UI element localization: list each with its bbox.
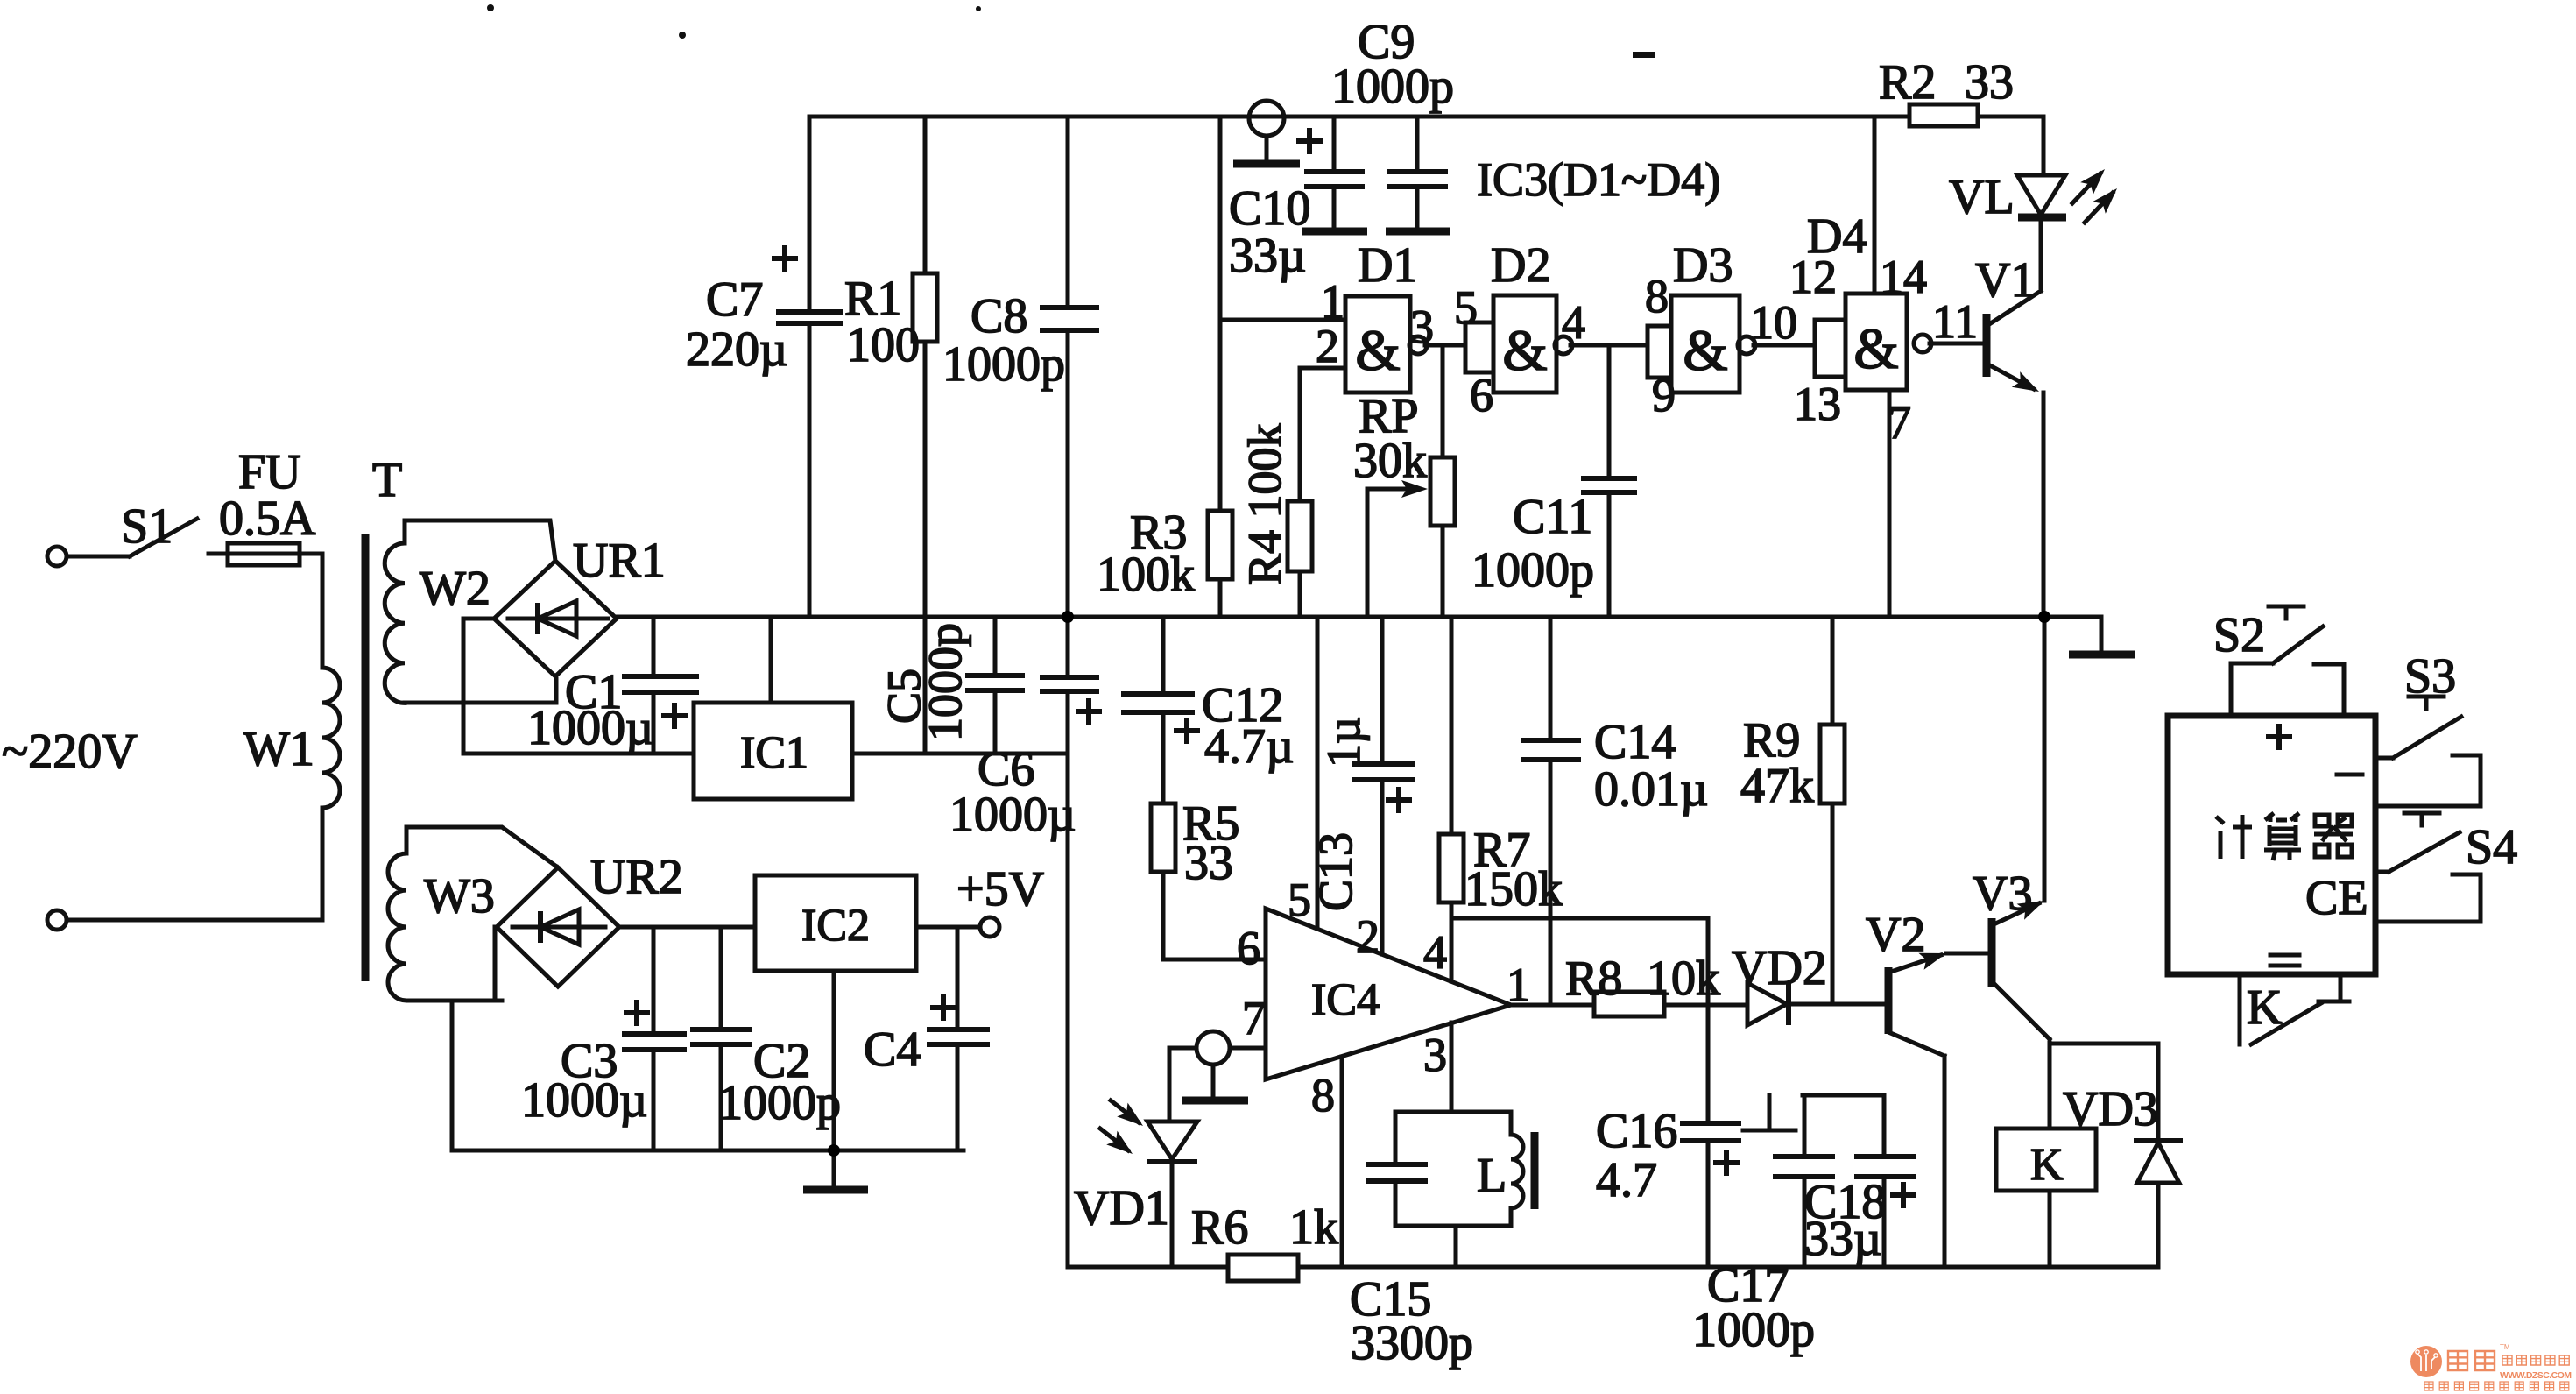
svg-text:S1: S1 [121,499,173,554]
svg-text:1000p: 1000p [718,1076,841,1130]
svg-text:3: 3 [1410,301,1434,353]
svg-text:12: 12 [1789,251,1837,303]
svg-text:1000µ: 1000µ [949,788,1076,842]
svg-text:C8: C8 [970,289,1027,343]
svg-text:33µ: 33µ [1229,229,1306,283]
svg-text:TM: TM [2500,1343,2510,1351]
svg-text:1000µ: 1000µ [521,1073,647,1128]
svg-text:100k: 100k [1097,548,1195,602]
svg-text:IC3(D1~D4): IC3(D1~D4) [1477,153,1720,206]
svg-text:8: 8 [1645,270,1669,322]
svg-text:VD3: VD3 [2063,1082,2158,1136]
svg-text:2: 2 [1316,320,1339,372]
svg-text:14: 14 [1880,251,1927,303]
svg-text:3: 3 [1423,1029,1447,1081]
svg-text:33µ: 33µ [1804,1212,1881,1266]
svg-text:4.7µ: 4.7µ [1204,719,1294,774]
svg-text:T: T [372,453,402,507]
svg-text:220µ: 220µ [686,322,787,377]
svg-text:R4 100k: R4 100k [1239,423,1291,585]
svg-text:33: 33 [1965,55,2014,110]
svg-text:1000p: 1000p [1331,60,1454,114]
svg-text:&: & [1853,317,1898,381]
svg-text:C4: C4 [864,1023,921,1077]
svg-text:1000p: 1000p [1692,1303,1815,1357]
svg-text:IC1: IC1 [740,728,808,778]
svg-text:1: 1 [1507,959,1530,1011]
svg-text:R6: R6 [1191,1200,1248,1255]
svg-text:D3: D3 [1673,238,1733,293]
svg-text:4: 4 [1562,296,1585,349]
svg-text:6: 6 [1470,369,1493,421]
svg-text:V1: V1 [1975,253,2035,308]
svg-text:0.01µ: 0.01µ [1594,762,1708,817]
svg-text:9: 9 [1652,369,1676,421]
svg-text:33: 33 [1184,836,1233,890]
svg-text:2: 2 [1356,910,1380,963]
svg-text:&: & [1355,319,1400,383]
svg-text:4: 4 [1423,926,1447,979]
svg-text:VD1: VD1 [1074,1181,1169,1235]
svg-text:W1: W1 [243,722,314,776]
svg-text:CE: CE [2305,871,2368,925]
svg-text:C7: C7 [706,272,763,327]
svg-text:D1: D1 [1358,238,1417,293]
svg-text:1000µ: 1000µ [527,701,653,755]
svg-text:K: K [2030,1140,2064,1190]
svg-text:47k: 47k [1740,759,1814,813]
svg-text:V2: V2 [1866,908,1925,962]
svg-text:&: & [1683,319,1727,383]
svg-text:C11: C11 [1513,490,1592,544]
svg-text:7: 7 [1242,992,1266,1044]
svg-text:L: L [1477,1149,1507,1203]
svg-text:11: 11 [1932,295,1978,348]
svg-text:5: 5 [1454,281,1478,334]
svg-text:UR1: UR1 [573,534,666,588]
svg-text:7: 7 [1888,396,1911,449]
svg-text:C13: C13 [1309,832,1362,911]
svg-text:IC4: IC4 [1311,975,1380,1025]
svg-text:10: 10 [1750,296,1797,349]
svg-text:1µ: 1µ [1317,717,1370,768]
svg-text:4.7: 4.7 [1596,1153,1657,1207]
svg-text:3300p: 3300p [1351,1316,1473,1370]
svg-text:VD2: VD2 [1732,941,1827,995]
svg-text:1000p: 1000p [919,623,971,741]
svg-text:8: 8 [1311,1069,1335,1122]
svg-text:W3: W3 [424,869,495,923]
svg-text:100: 100 [846,318,920,372]
svg-text:0.5A: 0.5A [219,492,316,546]
svg-text:1000p: 1000p [1471,543,1594,598]
svg-text:R2: R2 [1879,55,1936,110]
svg-text:D2: D2 [1491,238,1550,293]
svg-text:C14: C14 [1594,715,1676,769]
svg-text:C16: C16 [1596,1104,1677,1158]
svg-text:R8: R8 [1565,952,1622,1006]
svg-text:VL: VL [1949,170,2015,224]
svg-text:WWW.DZSC.COM: WWW.DZSC.COM [2500,1370,2572,1381]
svg-text:K: K [2247,980,2282,1035]
svg-text:6: 6 [1237,922,1260,974]
svg-text:1k: 1k [1289,1200,1338,1255]
svg-text:10k: 10k [1647,952,1720,1006]
svg-text:W2: W2 [420,562,490,616]
svg-text:5: 5 [1288,874,1311,926]
svg-text:S2: S2 [2213,608,2265,662]
svg-text:150k: 150k [1464,862,1563,916]
svg-text:30k: 30k [1353,434,1427,488]
svg-text:C10: C10 [1229,181,1310,236]
svg-text:S3: S3 [2404,649,2456,704]
svg-text:UR2: UR2 [590,850,683,904]
svg-text:IC2: IC2 [801,901,870,951]
svg-text:V3: V3 [1973,867,2032,921]
svg-text:&: & [1502,319,1547,383]
svg-text:1000p: 1000p [942,337,1065,392]
svg-text:~220V: ~220V [2,725,138,779]
svg-text:S4: S4 [2466,820,2517,874]
svg-text:13: 13 [1794,378,1841,430]
svg-text:+5V: +5V [956,862,1044,916]
